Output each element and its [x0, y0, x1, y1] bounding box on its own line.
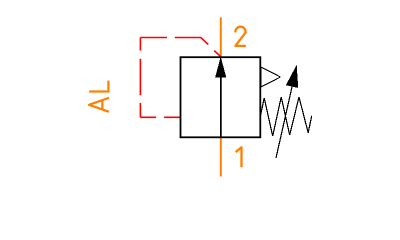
- wire: pilot line dash (bottom horizontal, near box): [164, 116, 180, 118]
- wire: pilot line dash (vertical bottom, at corner): [139, 103, 141, 117]
- adjustment arrowhead: [286, 65, 298, 88]
- relief vent triangle: [261, 67, 281, 87]
- wire: orange flow line port 1 (bottom): [220, 137, 222, 176]
- wire: pilot line dash (vertical long middle): [139, 59, 141, 95]
- port label 2: [235, 27, 246, 46]
- wire: orange flow line port 2 (top): [220, 17, 222, 57]
- wire: pilot line dash (top horizontal bending into diagonal): [175, 38, 209, 45]
- wire: pilot line dash (bottom horizontal, at corner): [140, 116, 156, 118]
- adjustment arrow shaft: [276, 87, 292, 159]
- spring: [260, 97, 312, 136]
- port label 1: [236, 147, 242, 167]
- wire: pilot line dash (diagonal to arrow tip): [214, 51, 220, 57]
- valve body box: [181, 57, 261, 137]
- wire: pilot line dash (top horizontal, at corner): [140, 37, 167, 39]
- flow path arrow shaft: [220, 75, 222, 137]
- flow path arrowhead: [215, 57, 226, 78]
- component label AL: [89, 81, 109, 112]
- wire: pilot line dash (vertical top): [139, 38, 141, 51]
